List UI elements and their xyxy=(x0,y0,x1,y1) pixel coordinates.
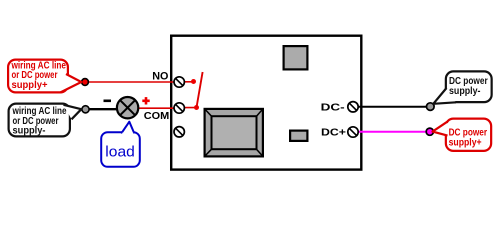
callout: load (blue) xyxy=(101,122,140,167)
svg-text:supply+: supply+ xyxy=(449,137,482,148)
wire: black supply- to load xyxy=(85,108,119,110)
callout: DC power supply+ (red) xyxy=(433,119,492,151)
component: small rectangle on board xyxy=(290,131,307,141)
wire: black DC- to power supply xyxy=(352,106,430,108)
callout: wiring AC line or DC power supply+ (red) xyxy=(8,60,81,93)
terminal DC- (screw) xyxy=(348,102,358,112)
node: COM contact point (red dot) xyxy=(194,105,199,110)
callout: wiring AC line or DC power supply- (black) xyxy=(9,104,82,137)
wire: COM contact internal (red) xyxy=(179,107,197,109)
callout: DC power supply- (black) xyxy=(433,71,491,103)
wire: NO contact internal (red) xyxy=(179,81,194,83)
terminal NC (screw, unused) xyxy=(174,127,184,137)
polarity minus sign at load xyxy=(104,100,112,103)
polarity plus sign at load (red) xyxy=(142,97,149,104)
junction: red dot on supply+ wire xyxy=(82,79,89,86)
svg-text:COM: COM xyxy=(144,111,170,122)
relay K1 (large gray box with bevel) xyxy=(205,109,263,156)
module outline (relay timer board) xyxy=(171,36,361,170)
svg-text:supply-: supply- xyxy=(13,126,46,137)
wire: red load to COM terminal xyxy=(135,107,179,109)
junction: magenta dot on DC+ wire xyxy=(426,128,433,135)
terminal DC+ (screw) xyxy=(348,127,358,137)
svg-text:load: load xyxy=(105,145,135,161)
svg-text:supply-: supply- xyxy=(449,86,481,97)
terminal COM (screw) xyxy=(174,103,184,113)
switch blade (open relay contact) xyxy=(197,72,203,108)
svg-text:DC+: DC+ xyxy=(321,128,346,139)
component: square IC on board xyxy=(284,46,308,69)
svg-text:NO: NO xyxy=(152,71,169,83)
load (lamp symbol, circle with X) xyxy=(117,97,138,118)
wire: magenta DC+ to power supply xyxy=(352,131,430,133)
junction: gray dot on supply- wire xyxy=(82,106,89,113)
svg-text:DC-: DC- xyxy=(321,103,346,114)
node: NO contact point (red dot) xyxy=(191,79,196,84)
junction: gray dot on DC- wire xyxy=(427,103,435,111)
svg-text:supply+: supply+ xyxy=(12,80,48,91)
terminal NO (screw) xyxy=(174,77,184,87)
wire: red supply+ to NO terminal xyxy=(85,81,179,83)
